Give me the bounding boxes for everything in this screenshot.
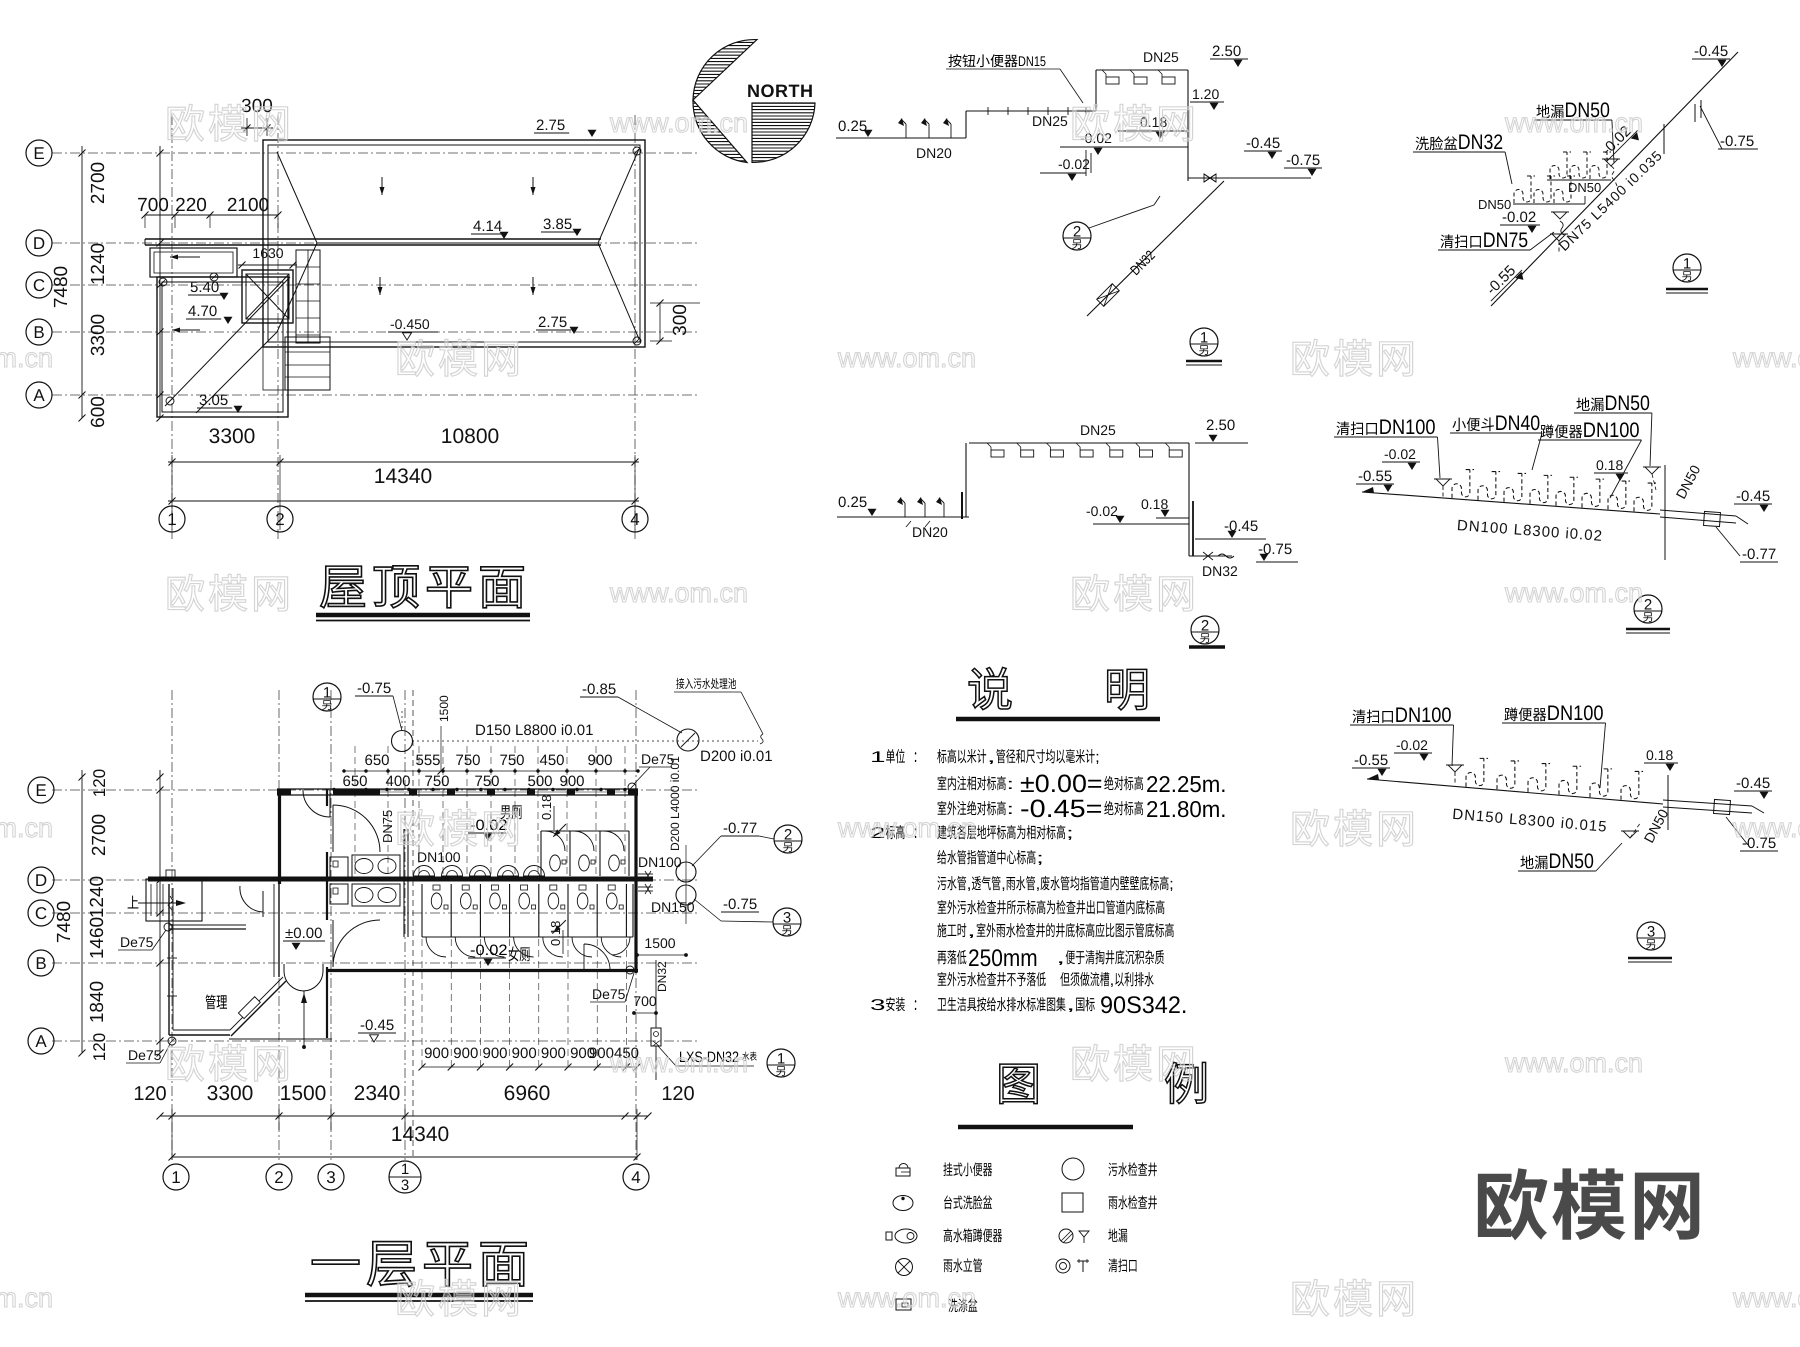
svg-text:2700: 2700 xyxy=(88,162,109,204)
svg-text:500: 500 xyxy=(527,773,552,790)
svg-text:6960: 6960 xyxy=(504,1082,551,1105)
svg-text:-0.45: -0.45 xyxy=(1736,775,1770,792)
svg-text:-0.02: -0.02 xyxy=(470,942,508,959)
svg-text:3: 3 xyxy=(1647,924,1655,941)
svg-text:3.85: 3.85 xyxy=(543,216,572,233)
svg-text::: : xyxy=(1006,801,1014,818)
svg-text:1500: 1500 xyxy=(280,1082,327,1105)
svg-text:,: , xyxy=(1001,876,1006,893)
svg-text:1500: 1500 xyxy=(644,935,675,951)
svg-text:14340: 14340 xyxy=(391,1123,449,1146)
svg-text:3: 3 xyxy=(870,997,886,1014)
svg-text:1240: 1240 xyxy=(87,876,108,918)
svg-text:1.20: 1.20 xyxy=(1192,86,1219,102)
svg-text:DN75: DN75 xyxy=(1483,229,1528,252)
svg-text:7480: 7480 xyxy=(54,901,75,943)
svg-text:-0.77: -0.77 xyxy=(723,820,757,837)
svg-text:DN100: DN100 xyxy=(1547,702,1604,725)
svg-text:1: 1 xyxy=(1683,256,1691,273)
svg-text:DN75: DN75 xyxy=(380,810,395,843)
svg-text:-0.450: -0.450 xyxy=(390,316,430,332)
svg-text:4.14: 4.14 xyxy=(473,218,502,235)
svg-text:-0.55: -0.55 xyxy=(1358,468,1392,485)
svg-text:,: , xyxy=(1056,950,1065,967)
svg-text:www.om.cn: www.om.cn xyxy=(837,343,976,373)
svg-text:DN40: DN40 xyxy=(1495,412,1540,435)
svg-text:2100: 2100 xyxy=(227,195,269,216)
svg-text:-0.45=: -0.45= xyxy=(1020,795,1103,823)
svg-text:3: 3 xyxy=(783,910,791,927)
svg-text:3: 3 xyxy=(326,1168,335,1187)
svg-text:D: D xyxy=(35,871,47,890)
svg-text:7480: 7480 xyxy=(51,266,72,308)
svg-text:-0.45: -0.45 xyxy=(1736,488,1770,505)
svg-text:-0.45: -0.45 xyxy=(360,1017,394,1034)
svg-text:www.om.cn: www.om.cn xyxy=(837,1283,976,1313)
svg-text:21.80m.: 21.80m. xyxy=(1146,796,1227,822)
svg-text:DN20: DN20 xyxy=(912,524,948,540)
svg-text:750: 750 xyxy=(474,773,499,790)
svg-text:750: 750 xyxy=(499,752,524,769)
svg-text:;: ; xyxy=(1169,876,1174,893)
svg-text:www.om.cn: www.om.cn xyxy=(0,343,53,373)
svg-text:C: C xyxy=(33,276,45,295)
svg-text:DN50: DN50 xyxy=(1605,392,1650,415)
svg-text:900: 900 xyxy=(541,1045,566,1062)
svg-text:1460: 1460 xyxy=(87,917,108,959)
svg-text:;: ; xyxy=(1066,825,1074,842)
svg-text:4: 4 xyxy=(631,1168,640,1187)
svg-text:A: A xyxy=(35,1032,47,1051)
svg-text:www.om.cn: www.om.cn xyxy=(609,1048,748,1078)
svg-text:D200 i0.01: D200 i0.01 xyxy=(700,748,773,765)
svg-text:1: 1 xyxy=(777,1051,785,1068)
svg-text:250mm: 250mm xyxy=(968,945,1038,972)
svg-text:450: 450 xyxy=(539,752,564,769)
svg-text:-0.45: -0.45 xyxy=(1694,43,1728,60)
svg-text:;: ; xyxy=(1095,749,1100,766)
svg-text:3.05: 3.05 xyxy=(199,392,228,409)
svg-text:2: 2 xyxy=(1644,597,1652,614)
svg-text:DN32: DN32 xyxy=(1458,131,1503,154)
svg-text:0.18: 0.18 xyxy=(1141,496,1168,512)
svg-text:-0.45: -0.45 xyxy=(1246,135,1280,152)
svg-text:3: 3 xyxy=(401,1177,409,1194)
svg-text:220: 220 xyxy=(175,195,207,216)
svg-text:-0.02: -0.02 xyxy=(1502,209,1536,226)
svg-text:-0.02: -0.02 xyxy=(470,817,508,834)
svg-text:2: 2 xyxy=(784,827,792,844)
svg-text:www.om.cn: www.om.cn xyxy=(0,813,53,843)
svg-text:E: E xyxy=(33,144,44,163)
svg-text:1: 1 xyxy=(870,749,886,766)
svg-text:DN100: DN100 xyxy=(1379,416,1436,439)
svg-text:DN25: DN25 xyxy=(1143,49,1179,65)
svg-text:,: , xyxy=(967,876,972,893)
svg-text:DN50: DN50 xyxy=(1549,850,1594,873)
svg-text:120: 120 xyxy=(90,769,109,797)
svg-text:www.om.cn: www.om.cn xyxy=(609,578,748,608)
svg-text:900: 900 xyxy=(424,1045,449,1062)
svg-text:www.om.cn: www.om.cn xyxy=(837,813,976,843)
svg-text:-0.55: -0.55 xyxy=(1354,752,1388,769)
svg-text:650: 650 xyxy=(364,752,389,769)
svg-text:900: 900 xyxy=(587,752,612,769)
svg-text:2.75: 2.75 xyxy=(536,117,565,134)
svg-text:0.18: 0.18 xyxy=(548,921,563,946)
svg-text:DN50: DN50 xyxy=(1568,180,1601,195)
svg-text:2.75: 2.75 xyxy=(538,314,567,331)
svg-text:,: , xyxy=(1066,997,1075,1014)
svg-text:,: , xyxy=(1036,876,1041,893)
svg-text:900: 900 xyxy=(559,773,584,790)
svg-text:-0.75: -0.75 xyxy=(723,896,757,913)
svg-text:www.om.cn: www.om.cn xyxy=(0,1283,53,1313)
svg-text:DN100: DN100 xyxy=(1583,419,1640,442)
svg-text:120: 120 xyxy=(133,1083,166,1105)
svg-text:DN100: DN100 xyxy=(417,849,461,865)
svg-text:900: 900 xyxy=(512,1045,537,1062)
svg-text:1240: 1240 xyxy=(88,243,109,285)
svg-text:E: E xyxy=(35,781,46,800)
svg-text:D150 L8800 i0.01: D150 L8800 i0.01 xyxy=(475,722,593,739)
svg-text:www.om.cn: www.om.cn xyxy=(1504,1048,1643,1078)
svg-text:DN15: DN15 xyxy=(1018,53,1046,69)
svg-text:DN25: DN25 xyxy=(1080,422,1116,438)
svg-text:400: 400 xyxy=(385,773,410,790)
svg-text:-0.75: -0.75 xyxy=(1286,152,1320,169)
svg-text:-0.02: -0.02 xyxy=(1384,446,1416,462)
svg-text:±0.00: ±0.00 xyxy=(285,925,322,942)
svg-text:120: 120 xyxy=(90,1033,109,1061)
svg-text:NORTH: NORTH xyxy=(747,81,814,101)
svg-text:D: D xyxy=(33,234,45,253)
svg-text:0.25: 0.25 xyxy=(838,494,867,511)
svg-text:900: 900 xyxy=(482,1045,507,1062)
svg-text:2: 2 xyxy=(1073,224,1081,241)
svg-text:10800: 10800 xyxy=(441,425,499,448)
svg-text:,: , xyxy=(987,749,996,766)
svg-text:DN25: DN25 xyxy=(1032,113,1068,129)
svg-text:2340: 2340 xyxy=(354,1082,401,1105)
svg-text:120: 120 xyxy=(661,1083,694,1105)
svg-text:De75: De75 xyxy=(128,1047,162,1063)
svg-text:0.18: 0.18 xyxy=(1646,747,1673,763)
svg-text:DN32: DN32 xyxy=(1202,563,1238,579)
svg-text:4.70: 4.70 xyxy=(188,303,217,320)
svg-text:1500: 1500 xyxy=(437,695,451,722)
svg-text:2700: 2700 xyxy=(89,814,110,856)
svg-text:1: 1 xyxy=(401,1161,409,1178)
svg-text:DN20: DN20 xyxy=(916,145,952,161)
svg-text:DN32: DN32 xyxy=(655,961,669,992)
svg-text:1630: 1630 xyxy=(252,245,283,261)
svg-text:De75: De75 xyxy=(592,986,626,1002)
svg-text:14340: 14340 xyxy=(374,465,432,488)
svg-text:DN150: DN150 xyxy=(651,899,695,915)
svg-text:www.om.cn: www.om.cn xyxy=(1504,108,1643,138)
svg-text:-0.02: -0.02 xyxy=(1058,156,1090,172)
svg-text:0.18: 0.18 xyxy=(539,795,554,820)
svg-text:,: , xyxy=(1110,972,1115,989)
svg-text:www.om.cn: www.om.cn xyxy=(1732,813,1800,843)
svg-text:DN100: DN100 xyxy=(1395,704,1452,727)
svg-text:1: 1 xyxy=(1200,330,1208,347)
svg-text:C: C xyxy=(35,904,47,923)
svg-text:700: 700 xyxy=(137,195,169,216)
svg-text:,: , xyxy=(967,923,976,940)
svg-text:1840: 1840 xyxy=(87,981,108,1023)
svg-text:0.18: 0.18 xyxy=(1596,457,1623,473)
svg-text:DN100: DN100 xyxy=(638,854,682,870)
svg-text:90S342.: 90S342. xyxy=(1100,992,1187,1019)
svg-text:www.om.cn: www.om.cn xyxy=(609,108,748,138)
svg-text:750: 750 xyxy=(424,773,449,790)
svg-text:;: ; xyxy=(1036,850,1044,867)
svg-text:-0.02: -0.02 xyxy=(1396,737,1428,753)
svg-text:3300: 3300 xyxy=(209,425,256,448)
svg-text:-0.77: -0.77 xyxy=(1742,546,1776,563)
svg-text::: : xyxy=(1006,776,1014,793)
svg-text:B: B xyxy=(33,323,44,342)
svg-text:D200 L4000 i0.01: D200 L4000 i0.01 xyxy=(668,756,682,851)
svg-text:900: 900 xyxy=(453,1045,478,1062)
svg-text:-0.02: -0.02 xyxy=(1086,503,1118,519)
svg-text:±0.00=: ±0.00= xyxy=(1020,770,1103,798)
svg-text:-0.75: -0.75 xyxy=(357,680,391,697)
svg-text:1: 1 xyxy=(171,1168,180,1187)
svg-text:0.25: 0.25 xyxy=(838,118,867,135)
svg-text:A: A xyxy=(33,386,45,405)
svg-text:www.om.cn: www.om.cn xyxy=(1732,343,1800,373)
svg-text:700: 700 xyxy=(633,993,657,1009)
svg-text:3300: 3300 xyxy=(88,314,109,356)
svg-text:-0.75: -0.75 xyxy=(1720,133,1754,150)
svg-text:300: 300 xyxy=(670,304,691,336)
svg-text:De75: De75 xyxy=(641,751,675,767)
svg-text:600: 600 xyxy=(88,396,109,428)
svg-text:-0.85: -0.85 xyxy=(582,681,616,698)
svg-text:3300: 3300 xyxy=(207,1082,254,1105)
svg-text:2.50: 2.50 xyxy=(1206,417,1235,434)
svg-text:2.50: 2.50 xyxy=(1212,43,1241,60)
svg-text:22.25m.: 22.25m. xyxy=(1146,771,1227,797)
svg-text:2: 2 xyxy=(274,1168,283,1187)
svg-text:De75: De75 xyxy=(120,934,154,950)
svg-text:www.om.cn: www.om.cn xyxy=(1732,1283,1800,1313)
svg-text:1: 1 xyxy=(323,685,331,702)
svg-text:2: 2 xyxy=(1201,618,1209,635)
svg-text:750: 750 xyxy=(455,752,480,769)
svg-text:B: B xyxy=(35,954,46,973)
svg-text:www.om.cn: www.om.cn xyxy=(1504,578,1643,608)
